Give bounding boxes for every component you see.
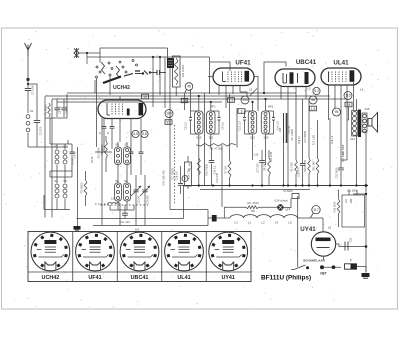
wire UY41 right lead [336,244,365,247]
svg-text:R2 31600: R2 31600 [81,182,84,193]
wire UCH42 pin3 [119,119,121,143]
svg-text:NET: NET [320,272,326,276]
svg-text:C10 90: C10 90 [66,105,69,114]
coil S8 [115,165,122,211]
capacitor C15 110 [239,121,280,131]
switch mains [294,265,324,270]
svg-text:C24: C24 [279,127,282,132]
wire UL41 pin b [334,85,336,109]
label panel note [135,227,140,231]
wire vertical x52 [51,99,53,218]
tube socket UF41 pinout [76,232,115,271]
capacitor C4 50 [70,144,77,171]
socket panel box [28,232,251,282]
wire bus y218 [77,218,184,220]
label S4 [54,179,58,183]
wire UY41 tap [311,213,314,217]
wire UY41 bottom stub [323,256,325,260]
svg-text:S14: S14 [350,137,355,141]
wire rail y93 [67,92,296,94]
wire inner box topleft [66,94,68,118]
wire UF41 pin b [225,86,227,109]
svg-text:S1: S1 [30,109,34,113]
wire IFT1 pins [191,89,211,186]
wire UBC41 pin b [287,87,289,186]
label S5 [63,179,67,183]
label socket UF41 [88,275,101,281]
capacitor C9 var [140,175,150,226]
wire switch drop [96,78,98,147]
wire x237 drop [236,108,238,148]
label S2 [54,145,58,149]
svg-text:S7: S7 [124,143,128,147]
circled number 6 [182,176,188,182]
tube UY41 cathode [317,247,330,249]
svg-text:L4: L4 [275,221,279,225]
svg-text:UBC41: UBC41 [296,59,317,66]
label S11 [209,136,214,140]
capacitor C10 90 [61,99,68,117]
svg-text:L4: L4 [360,88,364,92]
node input junction [86,53,88,64]
wire mains link [324,266,341,268]
wire UBC41 pin c [295,87,297,95]
svg-text:R3 17000: R3 17000 [98,147,101,158]
svg-text:115: 115 [345,94,351,98]
svg-text:45: 45 [187,85,191,89]
svg-text:L2: L2 [249,88,253,92]
wire label column bottom [45,117,67,119]
svg-text:C24, 330, 400: C24, 330, 400 [163,170,166,186]
label L5 choke [288,221,292,225]
resistor R5 [189,93,205,186]
wire vertical x45 [44,97,46,218]
circled number 46 [309,96,317,104]
resistor R1 10000 [45,103,51,117]
svg-text:L2: L2 [261,221,265,225]
label C19 500 [147,195,150,205]
svg-text:UY41: UY41 [300,226,316,233]
svg-text:L1: L1 [248,221,252,225]
capacitor C12 50 [129,137,134,175]
svg-text:R15 1000: R15 1000 [334,201,337,212]
resistor R2 31600 [81,171,87,206]
svg-text:R17 1,5M: R17 1,5M [313,135,316,145]
tube UY41 anode bar [316,238,331,242]
svg-text:C14 0,1: C14 0,1 [214,165,217,174]
resistor R17 riser [291,117,298,186]
coil S4 [55,177,59,210]
svg-text:3: 3 [241,109,243,113]
svg-text:MW: MW [349,198,353,203]
capacitor C8 110 [185,122,225,130]
wire UCH42 pin1 [99,119,107,153]
svg-text:S15: S15 [365,107,370,111]
IF transformer S10 S11 [189,111,221,134]
wire mid verticals [95,80,120,226]
circled number 95 [333,108,341,116]
svg-text:C15 110: C15 110 [239,121,242,131]
resistor R6 3150 [224,201,259,218]
coil S2 [55,144,59,171]
label L3 choke [234,221,238,225]
svg-text:C2 370: C2 370 [39,126,43,135]
label UBC41 tube name [296,59,317,66]
wire UF41 left lead [208,76,213,78]
capacitor C7 var [131,175,141,226]
svg-text:46: 46 [311,98,315,102]
circled number 5,8 [141,130,148,137]
svg-text:UF41: UF41 [235,60,251,67]
boxed number 1,5 [310,106,317,111]
coil S16 [95,203,120,210]
tube socket UY41 pinout [209,232,248,271]
label S3 [63,145,67,149]
label L5b [328,226,332,230]
tube socket UCH42 pinout [31,232,70,271]
label socket UY41 [221,275,235,281]
wire UF41 pin c [232,86,234,95]
label C27 5000 [342,144,345,155]
svg-text:R1 10000: R1 10000 [45,104,48,115]
label UY41 tube name [300,226,316,233]
node mains dot [332,265,336,269]
wire transformer top [356,99,358,111]
label L4 choke [275,221,279,225]
svg-text:5W: 5W [251,209,255,213]
svg-text:UL41: UL41 [333,60,349,67]
tube socket UBC41 pinout [120,232,159,271]
wire switch left drop [291,269,294,271]
wire bus y152 [95,151,112,153]
svg-text:R12 30000: R12 30000 [304,130,307,142]
socket panel divider 4 [205,232,207,282]
tube UY41 envelope [311,232,335,256]
svg-text:S4: S4 [54,179,58,183]
label UL41 tube name [333,60,349,67]
label 100 block [208,215,217,222]
coil S6 [115,142,122,165]
label C23 50 [138,195,141,203]
svg-text:5,8: 5,8 [142,132,147,136]
wire UY41 feed corner [322,218,324,231]
socket panel divider 3 [161,232,163,282]
label L2 choke [261,221,265,225]
boxed number 28 [345,102,352,107]
svg-text:1,5: 1,5 [311,107,316,111]
svg-text:5,3: 5,3 [314,89,319,93]
boxed number 1,2b [228,98,235,103]
svg-text:C17 500: C17 500 [257,163,260,173]
wire bus B riser [183,186,185,219]
coil S1 [26,109,34,147]
svg-text:C27 5000: C27 5000 [342,144,345,155]
antenna input terminal [74,48,79,58]
capacitor C26 0,5 [176,166,184,194]
circled number 5,3 [313,87,320,94]
label L3 [307,87,311,91]
wire UL41 pin a [328,85,330,120]
boxed number 10 [142,94,149,99]
antenna [25,43,32,56]
svg-text:R18 1,5: R18 1,5 [331,135,334,144]
svg-text:C19 500: C19 500 [147,195,150,205]
resistor R7 1M [225,94,231,186]
wire UL41 pin d [346,85,348,99]
wire coil row lead [217,217,230,219]
band switch S cluster [96,60,167,84]
wire vertical x170 long [163,68,175,210]
svg-text:117: 117 [313,208,319,212]
wire rail y102 [57,101,222,103]
label NET [320,272,326,276]
wire UF41 top-left [210,57,230,94]
svg-text:S13: S13 [264,136,269,140]
wire UBC41 pin a [280,87,282,100]
node bus junction [365,184,368,248]
label UCH42 tube name [113,85,130,91]
svg-text:R13 20000: R13 20000 [304,159,307,172]
svg-text:95: 95 [335,110,339,114]
circled number 115 [344,92,352,100]
wire x330 riser [329,118,331,186]
svg-text:S11: S11 [209,136,214,140]
wire S2 top riser [49,118,51,140]
svg-text:C23 50: C23 50 [138,195,141,203]
capacitor C2 370 [34,121,43,148]
capacitor C21 5000 [336,151,346,185]
svg-text:UCH42: UCH42 [113,85,130,91]
wire UL41 pin c [340,85,342,160]
svg-text:105: 105 [135,227,140,231]
coil S7 [124,142,131,165]
label C8 30 [91,156,94,163]
label C18 CA [254,154,259,157]
svg-text:R6, 3150: R6, 3150 [247,201,259,205]
label SCHAKELAAR [303,259,325,263]
wire switch drop2 [109,76,111,95]
svg-text:6,3V schaal: 6,3V schaal [274,200,288,203]
svg-text:S2: S2 [54,145,58,149]
wire lamp to C6 [283,199,291,208]
wire right drop to ground [365,247,367,273]
resistor R4 12000 [101,136,107,172]
svg-text:HF2: HF2 [268,105,274,109]
label R16 47000 [206,163,209,175]
svg-text:10: 10 [143,95,147,99]
capacitor C31 [345,237,353,250]
wire rail y99 [52,98,347,100]
label 4700 [270,151,273,162]
node dots rails [27,52,267,103]
svg-text:C31 5000: C31 5000 [347,191,358,193]
wire rail1 corner drop [99,48,101,62]
svg-text:103: 103 [242,98,248,102]
svg-text:R11 50000: R11 50000 [172,168,175,180]
wire bus y225 [93,225,208,227]
capacitor under UCH42 b [107,119,115,150]
label socket UCH42 [42,275,60,281]
svg-text:R9 300: R9 300 [264,162,267,171]
svg-text:UY41: UY41 [221,275,235,281]
wire x222 drop [221,145,223,207]
svg-text:C3 100: C3 100 [59,105,62,114]
capacitor C6 5000 box [283,190,299,198]
label S6 [115,143,119,147]
resistor R9 300 [264,150,271,186]
svg-text:C21 5000: C21 5000 [336,167,339,178]
svg-text:C18: C18 [254,154,259,157]
wire S coils bottom [44,195,70,210]
coil S9 [124,165,131,211]
label BF111U (Philips) title [261,275,311,282]
node antenna junction [26,78,29,81]
tube UBC41 envelope [275,69,315,87]
wire S2S3 top [50,140,72,144]
svg-text:C9 110: C9 110 [222,122,225,130]
svg-text:R17 300: R17 300 [291,162,294,172]
svg-text:C5 50: C5 50 [72,158,75,165]
capacitor C13 var small [139,128,144,175]
wire heater right [297,196,299,267]
wire vertical x165 [164,57,166,108]
wire top rail 2 [87,56,210,58]
label S7 [124,143,128,147]
svg-text:UL41: UL41 [177,275,190,281]
circled number 45a [185,83,193,110]
wire x346 drop [347,107,349,120]
wire input stub [79,52,100,54]
label S15 [365,107,370,111]
svg-text:UF41: UF41 [88,275,101,281]
svg-text:C4 50: C4 50 [74,151,77,158]
IF transformer S12 S13 [243,111,275,134]
node fuse junction [365,245,368,248]
label socket UBC41 [131,275,149,281]
svg-text:C8 110: C8 110 [185,122,188,130]
capacitor C11 410 [119,205,130,224]
svg-text:C1 1000: C1 1000 [31,85,35,95]
svg-text:1,2: 1,2 [166,120,171,124]
label L1 [166,119,170,123]
label UF41 tube name [235,60,251,67]
label S13 [264,136,269,140]
wire x296 riser [295,94,297,117]
wire UCH42 pin4 [130,119,132,138]
lamp L6 dial [259,200,289,212]
wire S6S9 bottom [110,205,134,210]
resistor R11 30000 [173,56,186,96]
svg-text:6: 6 [184,177,186,181]
svg-text:R4 12000: R4 12000 [101,144,104,155]
svg-text:S9: S9 [124,179,128,183]
boxed number 3 [238,109,245,114]
svg-text:R7 1M: R7 1M [225,166,228,173]
wire top rail 1 [100,47,168,49]
svg-text:C20 470: C20 470 [298,167,301,177]
wire UF41 pin d [240,86,247,97]
wire UBC41 pin d [305,87,307,100]
capacitor C1 1000 [25,80,35,114]
label RF1 [210,105,216,109]
label S10 [196,136,201,140]
label 6 node [289,207,291,211]
socket panel divider 2 [116,232,118,282]
svg-text:4,5: 4,5 [133,132,138,136]
svg-text:UBC41: UBC41 [131,275,149,281]
svg-text:L3: L3 [234,221,238,225]
coil S3 [63,144,67,171]
boxed number 1,2a [165,120,172,125]
circled number 104 [165,110,173,118]
svg-text:S8: S8 [115,179,119,183]
label S14 [350,137,355,141]
wire UL41 anode [353,82,355,110]
svg-text:F: F [350,259,352,263]
svg-text:C11, 410: C11, 410 [119,220,130,224]
wire x78 riser [77,147,79,226]
label socket UL41 [177,275,190,281]
resistor R13 20000 [304,99,310,186]
label L4 [360,88,364,92]
capacitor C20 470 [298,99,306,186]
resistor R15 1000 [334,190,340,228]
wire antenna down [27,50,29,79]
coil S5 [63,177,67,210]
svg-text:C31: C31 [350,237,353,242]
wire gang dashed [100,204,148,206]
svg-text:R16 47000: R16 47000 [206,163,209,175]
svg-text:SCHAKELAAR: SCHAKELAAR [303,259,325,263]
ground main left [74,226,81,230]
svg-text:R11 10000: R11 10000 [291,129,294,141]
choke HF stopper [167,48,174,68]
tube UCH42 envelope [98,100,146,119]
wire IFT2 pins [253,99,266,165]
tube socket UL41 pinout [165,232,204,271]
label S8 [115,179,119,183]
svg-text:RF1: RF1 [210,105,216,109]
wire UF41 right lead [254,77,258,112]
svg-text:C16 0,05: C16 0,05 [216,172,219,182]
tube UL41 envelope [321,68,361,85]
resistor R8 47000 horizontal [196,144,236,151]
boxed number 1,8 [181,98,188,103]
label C16 0,05 [216,172,219,182]
wire vertical x160 [159,57,161,95]
socket panel divider 1 [72,232,74,282]
wire transformer primary down [356,135,358,186]
label L1 choke [248,221,252,225]
capacitor C17 500 [257,150,265,186]
svg-text:L5: L5 [328,226,332,230]
label C5 50 [72,158,75,165]
potentiometer R14 [185,156,192,189]
svg-text:S6: S6 [115,143,119,147]
wire vertical x174 dashed [174,125,176,204]
capacitor C14 0,1 [209,148,217,186]
ground right [362,273,370,278]
label S12 [250,136,255,140]
fuse F [345,259,357,270]
capacitor C24 electrolytic [279,113,291,186]
svg-text:UCH42: UCH42 [42,275,60,281]
wire bus C corner [170,210,208,226]
svg-text:R10 140: R10 140 [313,161,316,171]
resistor R10 140 [313,120,319,186]
wire rail y96 [45,95,330,97]
choke L3 L1 L2 L4 L5 [230,215,323,218]
